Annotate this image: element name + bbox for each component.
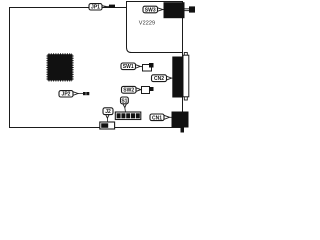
board outline [10,8,183,128]
svg-text:CN1: CN1 [152,115,162,121]
svg-text:SW1: SW1 [123,64,134,70]
callout JP2 [59,91,83,98]
connector CN1 body (bottom right) [172,112,189,128]
DIP switch S1 block [115,112,141,120]
callout JP1 [89,4,109,11]
svg-text:SW2: SW2 [123,88,134,94]
chip U1 body [48,54,73,80]
D-sub bottom ear [184,96,187,100]
jumper JP2 block [83,92,89,95]
callout CN1 [150,114,172,121]
svg-text:S1: S1 [121,98,127,104]
D-sub top ear [184,53,187,57]
svg-text:J2: J2 [105,109,111,115]
D-sub flange shell [183,55,189,97]
callout SW2 [122,86,142,93]
svg-text:JP2: JP2 [62,92,71,98]
CN1 stub below board edge [181,128,185,133]
callout CN2 [152,75,173,82]
connector J (top right RCA jack block) [164,2,185,18]
daughterboard outline (top right) [127,2,183,53]
J2 jumper block (bottom) [100,122,115,129]
svg-text:JP1: JP1 [91,5,100,11]
RCA jack stub lines [185,7,190,10]
svg-text:CN2: CN2 [154,76,164,82]
RCA jack outer plug [189,6,195,12]
callout SW1 [121,63,143,70]
SW2 switch component [142,87,150,94]
svg-text:V2229: V2229 [139,20,155,26]
svg-text:SW3: SW3 [145,7,156,13]
SW1 switch component [143,65,152,72]
jumper JP1 (on top board edge) [109,5,115,8]
chip U1 pin teeth [47,54,73,81]
callout S1 [121,97,129,112]
callout SW3 [143,6,164,13]
D-sub connector body (right side) [172,57,183,98]
callout J2 [103,108,113,122]
